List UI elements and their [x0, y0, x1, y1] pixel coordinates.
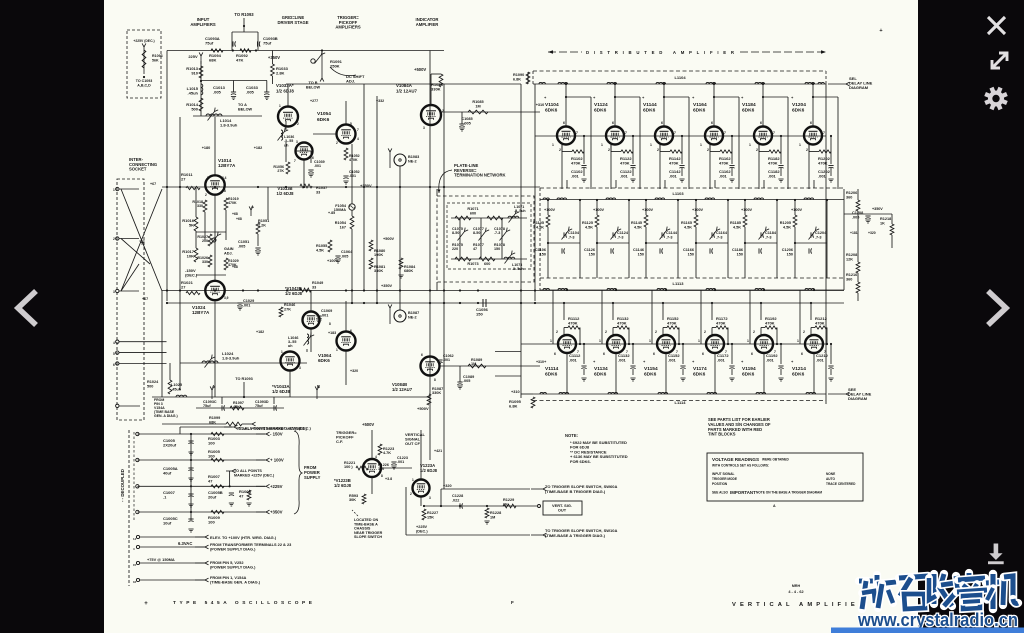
- svg-text:+500V: +500V: [362, 422, 374, 427]
- svg-text:V1104: V1104: [545, 102, 559, 108]
- svg-text:BELOW: BELOW: [238, 107, 253, 111]
- svg-text:7: 7: [207, 176, 209, 180]
- svg-text:+3.8: +3.8: [385, 477, 392, 481]
- svg-text:1M: 1M: [475, 104, 480, 108]
- svg-text:BELOW: BELOW: [306, 85, 321, 89]
- svg-text:2: 2: [608, 148, 610, 152]
- svg-text:.7-3: .7-3: [568, 235, 575, 239]
- svg-text:12BY7A: 12BY7A: [192, 310, 210, 315]
- svg-text:2: 2: [655, 330, 657, 334]
- svg-text:+: +: [144, 601, 148, 607]
- svg-text:8: 8: [224, 189, 226, 193]
- svg-text:2: 2: [803, 330, 805, 334]
- svg-text:.001: .001: [719, 174, 728, 179]
- svg-text:+310: +310: [536, 103, 545, 107]
- svg-text:.005: .005: [341, 254, 348, 258]
- svg-text:+100V: +100V: [327, 259, 339, 263]
- svg-text:V1184: V1184: [742, 102, 756, 108]
- svg-text:MARKED +225V (DEC.): MARKED +225V (DEC.): [234, 473, 275, 477]
- svg-text:225V: 225V: [188, 54, 198, 59]
- svg-text:+75V @ 150MA: +75V @ 150MA: [147, 557, 175, 562]
- svg-text:+180: +180: [202, 146, 211, 150]
- svg-text:TRIGGER MODE: TRIGGER MODE: [712, 477, 737, 481]
- svg-text:+100V: +100V: [642, 208, 654, 212]
- svg-text:+183: +183: [328, 331, 336, 335]
- svg-text:2: 2: [559, 148, 561, 152]
- svg-text:4.5K: 4.5K: [684, 225, 692, 229]
- svg-text:6DK6: 6DK6: [742, 372, 755, 378]
- svg-text:2: 2: [753, 330, 755, 334]
- svg-text:+100V: +100V: [593, 208, 605, 212]
- svg-text:AMPLIFIERS: AMPLIFIERS: [335, 25, 361, 30]
- svg-text:6: 6: [751, 352, 753, 356]
- svg-text:470K: 470K: [667, 321, 677, 326]
- svg-text:.45uh: .45uh: [171, 386, 182, 391]
- svg-text:GAIN: GAIN: [224, 247, 234, 251]
- svg-text:3: 3: [113, 290, 115, 294]
- svg-text:ELEV. TO +100V (HTR. WRG. DIAG: ELEV. TO +100V (HTR. WRG. DIAG.): [210, 535, 277, 540]
- svg-text:+181: +181: [850, 231, 858, 235]
- svg-text:4: 4: [375, 455, 377, 459]
- svg-text:R1037: R1037: [316, 186, 327, 190]
- svg-text:150: 150: [589, 252, 595, 256]
- svg-text:470K: 470K: [669, 161, 679, 166]
- svg-text:15: 15: [133, 563, 137, 567]
- svg-text:+320: +320: [868, 231, 876, 235]
- svg-text:- - DECOUPLED: - - DECOUPLED: [120, 469, 125, 502]
- svg-text:R1216: R1216: [846, 273, 857, 277]
- svg-text:.005: .005: [463, 379, 470, 383]
- svg-text:L1104: L1104: [674, 75, 686, 80]
- svg-text:1/2 6DJ8: 1/2 6DJ8: [420, 468, 438, 473]
- svg-text:+67: +67: [142, 297, 148, 301]
- svg-text:+225V (DEC.): +225V (DEC.): [133, 39, 154, 43]
- svg-text:10K: 10K: [187, 254, 194, 259]
- svg-text:.001: .001: [397, 460, 404, 464]
- svg-text:1: 1: [747, 339, 749, 343]
- svg-text:R1085: R1085: [472, 100, 483, 104]
- svg-text:+100V: +100V: [791, 208, 803, 212]
- svg-text:20uf: 20uf: [208, 495, 217, 500]
- svg-text:4: 4: [113, 341, 115, 345]
- svg-text:AUTO: AUTO: [826, 477, 835, 481]
- svg-text:1: 1: [599, 339, 601, 343]
- svg-text:330: 330: [197, 204, 203, 208]
- svg-text:SEE ALSO: SEE ALSO: [712, 491, 729, 495]
- svg-text:uh: uh: [288, 344, 293, 348]
- svg-text:360: 360: [846, 195, 852, 199]
- svg-text:4: 4: [357, 137, 359, 141]
- svg-text:1: 1: [412, 478, 414, 482]
- svg-text:1: 1: [279, 104, 281, 108]
- svg-text:2: 2: [806, 148, 808, 152]
- svg-text:6DK6: 6DK6: [318, 358, 330, 363]
- svg-text:1/2 6DJ8: 1/2 6DJ8: [276, 88, 294, 93]
- svg-text:(TIME-BASE A TRIGGER DIAG.): (TIME-BASE A TRIGGER DIAG.): [545, 533, 606, 538]
- svg-text:3: 3: [299, 366, 301, 370]
- svg-text:1: 1: [336, 348, 338, 352]
- svg-text:1.8-3.9uh: 1.8-3.9uh: [220, 123, 238, 128]
- svg-text:250K: 250K: [330, 64, 340, 69]
- svg-text:+.85: +.85: [328, 211, 335, 215]
- svg-text:.001: .001: [618, 358, 627, 363]
- svg-text:+277: +277: [310, 99, 318, 103]
- svg-text:6DK6: 6DK6: [742, 108, 755, 114]
- svg-text:.005: .005: [213, 90, 222, 95]
- svg-text:AMPLIFIERS: AMPLIFIERS: [190, 22, 216, 27]
- svg-text:TRACE CENTERED: TRACE CENTERED: [826, 482, 856, 486]
- svg-text:4.5K: 4.5K: [733, 225, 741, 229]
- svg-text:2: 2: [205, 193, 207, 197]
- svg-text:3: 3: [296, 140, 298, 144]
- svg-text:.005: .005: [463, 121, 470, 125]
- svg-text:100: 100: [208, 454, 215, 459]
- svg-text:330K: 330K: [431, 87, 441, 92]
- svg-text:8-50: 8-50: [473, 231, 480, 235]
- svg-text:1M: 1M: [490, 515, 495, 519]
- svg-text:V1084A: V1084A: [396, 83, 413, 88]
- svg-text:2.2K: 2.2K: [258, 223, 266, 227]
- svg-text:TO R1093: TO R1093: [235, 377, 252, 381]
- svg-text:4.5K: 4.5K: [783, 225, 791, 229]
- svg-text:2: 2: [756, 148, 758, 152]
- svg-text:33: 33: [312, 285, 316, 289]
- svg-text:+67: +67: [150, 182, 156, 186]
- svg-text:SLOPE SWITCH: SLOPE SWITCH: [354, 535, 382, 539]
- svg-text:6DK6: 6DK6: [792, 372, 805, 378]
- svg-text:OUT CF: OUT CF: [405, 441, 420, 446]
- svg-text:TO C1093: TO C1093: [136, 79, 153, 83]
- svg-text:(TIME-BASE B TRIGGER DIAG.): (TIME-BASE B TRIGGER DIAG.): [545, 489, 606, 494]
- svg-text:6: 6: [612, 121, 614, 125]
- svg-text:.001: .001: [768, 174, 777, 179]
- svg-text:DISTRIBUTED AMPLIFIER: DISTRIBUTED AMPLIFIER: [586, 50, 735, 55]
- svg-text:.7-3: .7-3: [494, 231, 500, 235]
- svg-text:470K: 470K: [568, 321, 578, 326]
- svg-text:.005: .005: [238, 244, 245, 248]
- svg-text:150: 150: [787, 252, 793, 256]
- svg-text:NOTE ON THE BASE A TRIGGER DIA: NOTE ON THE BASE A TRIGGER DIAGRAM: [756, 491, 822, 495]
- svg-text:.001: .001: [668, 358, 677, 363]
- svg-text:+68: +68: [232, 265, 238, 269]
- svg-text:SUPPLY: SUPPLY: [304, 475, 321, 480]
- svg-text:(DEC.): (DEC.): [185, 273, 198, 278]
- svg-text:680K: 680K: [404, 269, 413, 273]
- svg-text:6DK6: 6DK6: [693, 108, 706, 114]
- svg-text:2: 2: [556, 330, 558, 334]
- svg-text:3,9: 3,9: [224, 296, 229, 300]
- svg-text:100: 100: [208, 520, 215, 525]
- svg-text:.7-3: .7-3: [666, 235, 673, 239]
- svg-text:27K: 27K: [277, 169, 284, 173]
- svg-text:.005: .005: [246, 90, 255, 95]
- svg-text:47: 47: [208, 479, 213, 484]
- svg-text:+350V: +350V: [872, 207, 883, 211]
- svg-text:1: 1: [799, 143, 801, 147]
- svg-text:1: 1: [749, 143, 751, 147]
- svg-text:7: 7: [357, 128, 359, 132]
- svg-text:L1113: L1113: [673, 281, 685, 286]
- svg-text:2: 2: [707, 148, 709, 152]
- svg-text:WERE OBTAINED: WERE OBTAINED: [762, 458, 790, 462]
- svg-text:V1154: V1154: [644, 366, 658, 372]
- svg-text:27: 27: [181, 177, 186, 182]
- svg-text:C1085: C1085: [461, 117, 472, 121]
- svg-text:150: 150: [494, 247, 500, 251]
- svg-text:+310: +310: [536, 360, 544, 364]
- svg-text:+100V: +100V: [741, 208, 753, 212]
- svg-text:+350V: +350V: [360, 183, 372, 188]
- svg-text:MRH: MRH: [792, 584, 801, 588]
- svg-text:TO A: TO A: [238, 103, 247, 107]
- svg-text:R1208: R1208: [846, 253, 857, 257]
- svg-text:+182: +182: [256, 330, 264, 334]
- svg-text:R1055: R1055: [316, 244, 327, 248]
- svg-text:L1103: L1103: [672, 191, 684, 196]
- svg-text:3,4: 3,4: [222, 176, 227, 180]
- svg-text:TERMINATION NETWORK: TERMINATION NETWORK: [454, 173, 506, 178]
- svg-text:C1064: C1064: [341, 250, 353, 254]
- svg-text:2: 2: [605, 330, 607, 334]
- svg-text:6: 6: [801, 352, 803, 356]
- svg-text:27: 27: [181, 285, 186, 290]
- svg-text:.001: .001: [349, 174, 356, 178]
- svg-text:360: 360: [846, 277, 852, 281]
- svg-text:+500V: +500V: [383, 237, 395, 241]
- svg-text:V1134: V1134: [594, 366, 608, 372]
- svg-text:6.8K: 6.8K: [513, 77, 521, 81]
- svg-text:2: 2: [113, 237, 115, 241]
- svg-text:V1114: V1114: [545, 366, 559, 372]
- svg-text:GEN. A DIAG.): GEN. A DIAG.): [154, 414, 178, 418]
- svg-text:30K: 30K: [349, 498, 356, 502]
- svg-text:6: 6: [702, 352, 704, 356]
- svg-text:7: 7: [823, 131, 825, 135]
- svg-text:DRIVER STAGE: DRIVER STAGE: [277, 20, 308, 25]
- svg-text:+: +: [879, 28, 882, 34]
- svg-text:.45uh: .45uh: [188, 91, 199, 96]
- svg-text:1K: 1K: [880, 221, 885, 225]
- svg-text:6.8K: 6.8K: [509, 404, 518, 409]
- svg-text:12K: 12K: [846, 257, 853, 261]
- svg-text:2: 2: [297, 122, 299, 126]
- svg-text:+ 100V: + 100V: [270, 458, 284, 463]
- svg-text:V1204: V1204: [792, 102, 806, 108]
- svg-text:150: 150: [688, 252, 694, 256]
- svg-text:1/2 6DJ8: 1/2 6DJ8: [334, 483, 352, 488]
- svg-text:.022: .022: [452, 498, 459, 502]
- svg-text:R1099: R1099: [209, 416, 220, 420]
- svg-text:A: A: [773, 504, 776, 508]
- svg-text:56K: 56K: [152, 58, 159, 62]
- svg-text:6DK6: 6DK6: [594, 372, 607, 378]
- svg-text:14: 14: [133, 537, 137, 541]
- svg-text:600: 600: [484, 262, 490, 266]
- svg-text:1.8-3.9uh: 1.8-3.9uh: [222, 356, 240, 361]
- svg-text:2: 2: [410, 492, 412, 496]
- svg-text:V1144: V1144: [643, 102, 657, 108]
- svg-text:7: 7: [576, 131, 578, 135]
- svg-text:DIAGRAM: DIAGRAM: [849, 85, 869, 90]
- svg-text:V1164: V1164: [693, 102, 707, 108]
- svg-text:167: 167: [340, 225, 346, 229]
- svg-text:1: 1: [700, 143, 702, 147]
- svg-text:B1083: B1083: [408, 155, 419, 159]
- svg-text:600: 600: [470, 212, 476, 216]
- svg-text:NE-2: NE-2: [408, 315, 417, 319]
- svg-text:V1054: V1054: [317, 111, 331, 117]
- svg-text:6: 6: [653, 352, 655, 356]
- svg-text:NONE: NONE: [826, 472, 835, 476]
- svg-text:INPUT SIGNAL: INPUT SIGNAL: [712, 472, 735, 476]
- svg-text:+310: +310: [511, 390, 520, 394]
- svg-text:40uf: 40uf: [163, 471, 172, 476]
- svg-text:7: 7: [724, 131, 726, 135]
- svg-text:6DK6: 6DK6: [317, 117, 330, 123]
- svg-text:75uf: 75uf: [263, 41, 272, 46]
- svg-text:SOCKET: SOCKET: [129, 167, 147, 172]
- svg-text:.3-.5uh: .3-.5uh: [512, 267, 524, 271]
- svg-text:.001: .001: [766, 358, 775, 363]
- svg-text:6: 6: [661, 121, 663, 125]
- svg-text:.001: .001: [314, 164, 321, 168]
- svg-text:1: 1: [797, 339, 799, 343]
- svg-text:7: 7: [773, 131, 775, 135]
- svg-text:1/2 12AU7: 1/2 12AU7: [396, 88, 418, 93]
- svg-text:8: 8: [381, 474, 383, 478]
- svg-text:150MA: 150MA: [334, 208, 346, 212]
- svg-text:B1087: B1087: [408, 311, 419, 315]
- svg-text:6: 6: [222, 283, 224, 287]
- svg-text:.001: .001: [443, 358, 450, 362]
- svg-text:330K: 330K: [374, 269, 383, 273]
- svg-text:1: 1: [281, 350, 283, 354]
- svg-text:2.8K: 2.8K: [276, 71, 285, 76]
- svg-text:12BY7A: 12BY7A: [218, 163, 236, 168]
- svg-text:.001: .001: [620, 174, 629, 179]
- svg-text:7: 7: [294, 159, 296, 163]
- svg-text:220: 220: [452, 247, 458, 251]
- svg-text:1: 1: [650, 143, 652, 147]
- svg-text:ADJ.: ADJ.: [224, 251, 233, 255]
- svg-text:1: 1: [552, 143, 554, 147]
- svg-text:7: 7: [674, 131, 676, 135]
- svg-text:470K: 470K: [349, 158, 358, 162]
- svg-text:500: 500: [191, 107, 198, 112]
- svg-text:6: 6: [760, 121, 762, 125]
- svg-text:470K: 470K: [716, 321, 726, 326]
- svg-text:+182: +182: [254, 146, 263, 150]
- svg-text:1: 1: [649, 339, 651, 343]
- svg-text:6: 6: [421, 353, 423, 357]
- svg-text:.001: .001: [717, 358, 726, 363]
- svg-text:6: 6: [350, 329, 352, 333]
- svg-text:R1073: R1073: [467, 262, 478, 266]
- svg-text:16: 16: [133, 580, 137, 584]
- svg-text:5: 5: [113, 352, 115, 356]
- svg-text:470K: 470K: [228, 201, 237, 205]
- svg-text:V1174: V1174: [693, 366, 707, 372]
- svg-text:.001: .001: [816, 358, 825, 363]
- svg-text:4.7K: 4.7K: [383, 451, 391, 455]
- svg-text:VOLTAGE READINGS: VOLTAGE READINGS: [712, 457, 759, 462]
- svg-text:6DK6: 6DK6: [545, 108, 558, 114]
- svg-text:R1218: R1218: [880, 217, 891, 221]
- svg-text:330K: 330K: [432, 391, 441, 395]
- svg-text:R1090: R1090: [513, 73, 524, 77]
- svg-text:2: 2: [704, 330, 706, 334]
- svg-text:+68: +68: [232, 212, 238, 216]
- svg-text:WITH CONTROLS SET AS FOLLOWS:: WITH CONTROLS SET AS FOLLOWS:: [712, 464, 769, 468]
- svg-text:+320: +320: [443, 484, 452, 488]
- svg-text:- 150V: - 150V: [270, 432, 283, 437]
- svg-text:TO ALL POINTS MARKED -150V(DEC: TO ALL POINTS MARKED -150V(DEC.): [238, 426, 311, 431]
- svg-text:6DK6: 6DK6: [594, 108, 607, 114]
- svg-text:1/2 6DJ8: 1/2 6DJ8: [272, 389, 290, 394]
- svg-text:R1024: R1024: [147, 380, 159, 384]
- svg-text:6DK6: 6DK6: [643, 108, 656, 114]
- svg-text:+421: +421: [434, 449, 442, 453]
- svg-text:(TIME-BASE GEN. A DIAG.): (TIME-BASE GEN. A DIAG.): [210, 580, 261, 585]
- svg-text:1: 1: [601, 143, 603, 147]
- svg-text:27K: 27K: [284, 307, 291, 311]
- svg-text:75uf: 75uf: [205, 41, 214, 46]
- svg-text:IMPORTANT: IMPORTANT: [730, 490, 756, 495]
- svg-text:6.3VAC: 6.3VAC: [178, 541, 192, 546]
- svg-text:.001: .001: [243, 303, 250, 307]
- svg-text:2: 2: [657, 148, 659, 152]
- svg-text:150: 150: [638, 252, 644, 256]
- svg-text:NOTE:: NOTE:: [565, 433, 578, 438]
- svg-text:5: 5: [350, 122, 352, 126]
- svg-text:1/2 6DJ8: 1/2 6DJ8: [277, 191, 295, 196]
- svg-text:6: 6: [563, 121, 565, 125]
- svg-text:L1114: L1114: [675, 400, 687, 405]
- svg-text:470K: 470K: [765, 321, 775, 326]
- svg-text:+320: +320: [350, 369, 358, 373]
- svg-text:TO R1093: TO R1093: [234, 12, 254, 17]
- svg-text:V1124: V1124: [594, 102, 608, 108]
- svg-text:3: 3: [423, 126, 425, 130]
- svg-text:2: 2: [336, 141, 338, 145]
- svg-text:470K: 470K: [617, 321, 627, 326]
- svg-text:(POWER SUPPLY DIAG.): (POWER SUPPLY DIAG.): [210, 565, 256, 570]
- svg-text:.7-3: .7-3: [716, 235, 723, 239]
- svg-text:10uf: 10uf: [163, 521, 172, 526]
- svg-text:1: 1: [550, 339, 552, 343]
- svg-text:6: 6: [113, 363, 115, 367]
- svg-text:DIAGRAM: DIAGRAM: [848, 396, 868, 401]
- svg-text:6: 6: [711, 121, 713, 125]
- svg-text:100K: 100K: [374, 253, 383, 257]
- svg-text:C.F.: C.F.: [336, 439, 343, 444]
- svg-text:(DEC.): (DEC.): [416, 529, 428, 533]
- svg-text:+225V: +225V: [270, 484, 283, 489]
- svg-text:6DK6: 6DK6: [644, 372, 657, 378]
- svg-text:470K: 470K: [815, 321, 825, 326]
- svg-text:.001: .001: [669, 174, 678, 179]
- svg-text:470K: 470K: [719, 161, 729, 166]
- svg-text:+500V: +500V: [417, 406, 429, 411]
- svg-text:8: 8: [434, 378, 436, 382]
- svg-text:47: 47: [239, 494, 244, 499]
- svg-text:1/2 6DJ8: 1/2 6DJ8: [285, 291, 303, 296]
- svg-text:+350V: +350V: [270, 510, 283, 515]
- svg-text:1: 1: [113, 188, 115, 192]
- svg-text:(POWER SUPPLY DIAG.): (POWER SUPPLY DIAG.): [210, 547, 256, 552]
- svg-text:ADJ.: ADJ.: [346, 79, 355, 84]
- svg-text:100: 100: [208, 441, 215, 446]
